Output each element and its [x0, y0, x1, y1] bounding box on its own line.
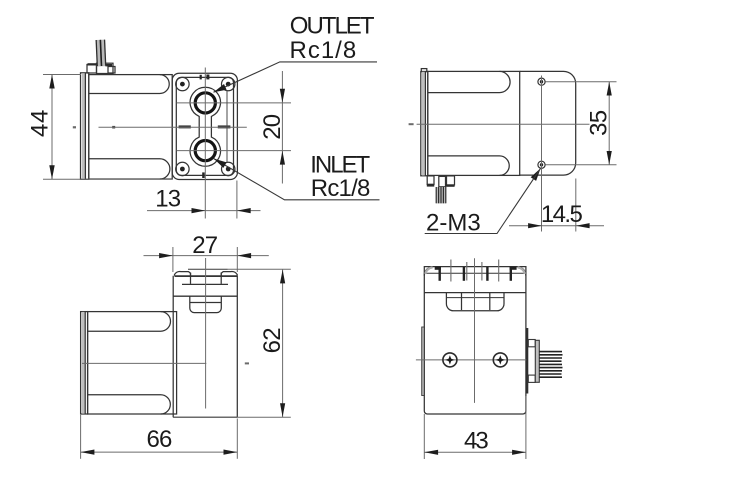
svg-text:27: 27	[192, 232, 218, 259]
svg-text:43: 43	[464, 428, 488, 455]
svg-text:13: 13	[155, 186, 181, 213]
svg-text:Rc1/8: Rc1/8	[290, 37, 358, 64]
svg-text:Rc1/8: Rc1/8	[311, 175, 370, 202]
svg-text:2-M3: 2-M3	[426, 209, 481, 236]
svg-text:44: 44	[27, 109, 54, 137]
svg-text:66: 66	[146, 426, 172, 453]
svg-text:35: 35	[586, 110, 613, 136]
svg-text:62: 62	[259, 328, 286, 354]
svg-text:OUTLET: OUTLET	[290, 13, 375, 40]
svg-text:14.5: 14.5	[541, 201, 583, 228]
svg-text:20: 20	[259, 114, 286, 140]
